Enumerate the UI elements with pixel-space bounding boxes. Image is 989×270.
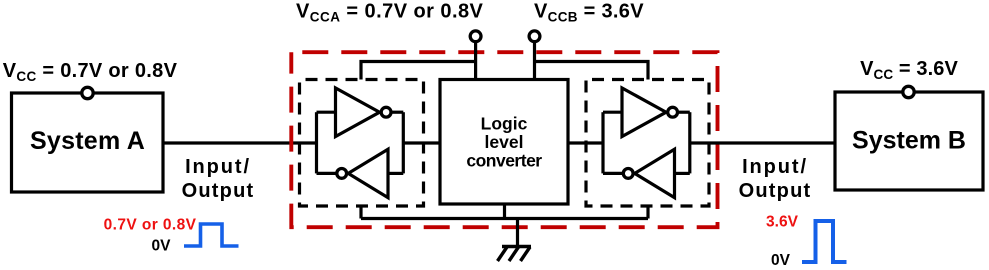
svg-text:System B: System B	[852, 127, 966, 155]
right block input bus vertical	[601, 112, 604, 173]
wire left block bottom to ground bus	[359, 206, 362, 219]
wire top inverter output (right block)	[678, 111, 690, 114]
wire VCCA branch to left buffer block	[361, 62, 476, 80]
logic level converter box	[440, 80, 568, 205]
svg-text:Output: Output	[182, 180, 255, 202]
system A box	[12, 93, 164, 192]
inverter A1 bubble	[381, 107, 391, 117]
system B Vcc terminal circle	[903, 86, 914, 97]
left waveform pulse	[184, 224, 239, 246]
svg-text:Output: Output	[739, 180, 812, 202]
svg-text:VCCB = 3.6V: VCCB = 3.6V	[534, 1, 644, 25]
wire VCCB terminal to converter top	[533, 43, 536, 80]
ground	[498, 247, 532, 262]
wire VCCB branch to right buffer block	[535, 62, 649, 80]
svg-text:0.7V or 0.8V: 0.7V or 0.8V	[104, 217, 197, 234]
right block output bus vertical	[688, 112, 691, 173]
wire converter to right block	[568, 141, 603, 144]
inverter A2 (left block, pointing left)	[348, 149, 388, 197]
wire bottom inverter input (left block)	[388, 172, 403, 175]
inverter B2 (right block, pointing left)	[635, 149, 675, 197]
system B box	[835, 92, 983, 190]
wire top inverter input (left block)	[317, 111, 336, 114]
inverter A1 (left block, pointing right)	[336, 88, 380, 137]
svg-text:VCC = 0.7V or 0.8V: VCC = 0.7V or 0.8V	[3, 60, 178, 84]
svg-text:VCC = 3.6V: VCC = 3.6V	[860, 58, 958, 82]
VCCA terminal circle	[470, 31, 481, 42]
wire right block bottom to ground bus	[646, 206, 649, 219]
svg-text:VCCA = 0.7V or 0.8V: VCCA = 0.7V or 0.8V	[296, 1, 484, 25]
svg-text:0V: 0V	[152, 238, 172, 255]
wire ground bus to ground symbol	[516, 219, 519, 247]
right buffer block dashed box	[586, 80, 709, 207]
wire right block to System B (signal B)	[690, 141, 835, 144]
inverter B2 bubble	[623, 169, 633, 179]
left block input bus vertical	[315, 112, 318, 173]
wire top inverter input (right block)	[603, 111, 622, 114]
right waveform pulse	[802, 221, 847, 262]
inverter B1 (right block, pointing right)	[622, 88, 666, 137]
left buffer block dashed box	[300, 80, 424, 207]
svg-text:Logic: Logic	[481, 114, 528, 134]
wire bottom inverter output (right block)	[603, 172, 623, 175]
svg-text:0V: 0V	[771, 252, 791, 269]
svg-text:Input/: Input/	[185, 156, 251, 178]
wire converter bottom to ground bus	[503, 204, 506, 219]
wire top inverter output (left block)	[391, 111, 403, 114]
wire bottom inverter output (left block)	[317, 172, 337, 175]
svg-text:converter: converter	[466, 151, 542, 171]
left block output bus vertical	[402, 112, 405, 173]
wire left block to converter	[403, 141, 440, 144]
wire System A to level shifter (signal A)	[163, 141, 317, 144]
svg-text:System A: System A	[30, 127, 145, 155]
inverter A2 bubble	[337, 169, 347, 179]
svg-text:level: level	[485, 132, 524, 152]
red dashed boundary (level translator module)	[291, 52, 717, 227]
wire VCCA terminal to converter top	[474, 43, 477, 80]
system A Vcc terminal circle	[82, 87, 93, 98]
VCCB terminal circle	[529, 31, 540, 42]
inverter B1 bubble	[668, 107, 678, 117]
svg-text:Input/: Input/	[742, 156, 808, 178]
wire bottom inverter input (right block)	[675, 172, 690, 175]
svg-text:3.6V: 3.6V	[766, 214, 799, 231]
ground bus wire	[361, 217, 648, 220]
